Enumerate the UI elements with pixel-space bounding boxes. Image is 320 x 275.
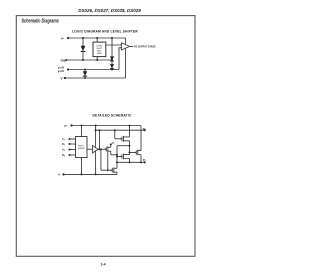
diode D4	[83, 71, 87, 76]
diode D2	[110, 56, 114, 60]
node V- label	[61, 76, 65, 80]
svg-text:φ1: φ1	[143, 158, 147, 162]
wire box bottom riser	[81, 158, 83, 175]
wire input rail	[68, 69, 119, 71]
top schematic caption	[72, 30, 138, 34]
svg-text:Schematic Diagrams: Schematic Diagrams	[22, 18, 60, 24]
transistor M4	[135, 126, 141, 163]
junction dot output/M4	[140, 161, 142, 163]
block U1 level shifter box	[93, 42, 106, 57]
junction dot gnd/box	[96, 59, 98, 61]
diode D3	[110, 64, 114, 68]
wire second rail y=132	[96, 129, 145, 131]
op-amp A1 output buffer triangle	[122, 43, 130, 50]
junction dot box-top/rail	[96, 37, 98, 39]
junction dot output/bus	[116, 161, 118, 163]
label Q1	[112, 143, 116, 145]
svg-text:A2: A2	[62, 149, 65, 153]
junction dot M5 gate riser top	[100, 148, 102, 150]
wire bottom rail	[64, 173, 118, 175]
page border frame	[16, 16, 195, 257]
junction dot M3 source on output line	[129, 161, 131, 163]
svg-text:B2: B2	[62, 154, 65, 158]
node V+ terminal dot	[67, 37, 69, 39]
op-amp A2 buffer triangle	[93, 145, 99, 153]
wire vertical x=95.6 behind buffer	[95, 126, 97, 175]
junction dot M2 drain on rail	[129, 125, 131, 127]
dot lower input	[120, 47, 122, 49]
transistor Q1	[104, 145, 111, 155]
wire box bottom connection	[96, 57, 98, 60]
node V+ label	[61, 37, 65, 41]
wire V- rail	[65, 77, 126, 79]
junction dot stub on M2-M3 chain	[129, 145, 131, 147]
wire box top connection	[96, 38, 98, 42]
junction dot bus 154.8	[116, 154, 118, 156]
node output label	[134, 46, 156, 49]
wire V+ rail	[68, 37, 126, 39]
svg-text:V+: V+	[64, 124, 68, 128]
svg-text:V+: V+	[61, 37, 65, 41]
junction dot x95.6 top rail	[95, 125, 97, 127]
svg-text:1-4: 1-4	[100, 263, 105, 267]
wire M5 gate riser	[100, 149, 102, 170]
diode D1	[81, 46, 86, 51]
block U2 text	[78, 145, 85, 150]
wire phi2 line riser x=99.5	[99, 130, 101, 149]
junction dot x99.5 on phi2 line	[99, 129, 101, 131]
wire bus x=117	[116, 146, 118, 167]
wire triangle lower input riser	[119, 48, 122, 70]
wire M4 gate line	[130, 152, 137, 154]
junction dot box riser	[81, 125, 83, 127]
input pin B	[62, 143, 65, 147]
junction dot M2 riser on phi2 line	[114, 129, 116, 131]
block U2 input box	[76, 137, 88, 158]
wire vertical V+ to GND at x=83	[82, 38, 84, 60]
terminal dot phi2 line	[144, 129, 146, 131]
terminal dot Q1 drain	[110, 143, 112, 145]
terminal dot output line	[144, 161, 146, 163]
node IN terminal dot	[67, 68, 69, 70]
bottom schematic caption	[93, 114, 132, 118]
wire Q1 source down to M5 gate line	[107, 152, 109, 170]
wire bus top stub	[117, 145, 130, 147]
junction dot buffer output	[99, 148, 101, 150]
transistor M3	[121, 154, 130, 163]
wire diode D4 branch	[84, 70, 86, 79]
svg-text:φ2: φ2	[143, 127, 147, 131]
wire top rail bottom schematic	[72, 125, 142, 127]
node GND label	[61, 58, 67, 62]
wire M2 gate riser	[114, 130, 116, 139]
node V- terminal dot	[64, 77, 66, 79]
transistor M5	[111, 167, 117, 175]
svg-text:V−: V−	[58, 173, 62, 177]
junction dot x83 top rail	[82, 37, 84, 39]
node V- terminal bottom rail	[62, 173, 64, 175]
wire M5 gate line	[101, 169, 112, 171]
wire GND rail	[65, 59, 67, 61]
wire right side vertical	[125, 38, 127, 78]
svg-text:LOGIC DIAGRAM AND LEVEL SHIFTE: LOGIC DIAGRAM AND LEVEL SHIFTER	[72, 30, 138, 34]
wire output line	[117, 161, 145, 163]
wire M2 gate line	[115, 138, 122, 140]
wire buffer output to Q1 gate	[98, 148, 105, 150]
node V+ terminal dot bottom	[70, 124, 72, 126]
junction dot Q1 source on gate line	[107, 169, 109, 171]
wire buffer input	[87, 148, 93, 150]
node phi2 terminal label	[143, 127, 147, 131]
junction dot M4 gate on chain	[129, 152, 131, 154]
junction dot x83 gnd rail	[82, 59, 84, 61]
block U1 text	[96, 45, 103, 55]
svg-text:TO OUTPUT STAGE: TO OUTPUT STAGE	[134, 46, 156, 49]
wire vertical diode chain x=112	[111, 38, 113, 70]
wire M3 gate line	[117, 156, 122, 158]
svg-text:BIAS: BIAS	[97, 52, 102, 55]
wire comparator output	[130, 45, 134, 47]
junction dot d4 bottom	[84, 77, 86, 79]
transistor M2	[121, 126, 130, 154]
node IN label	[58, 67, 64, 73]
input pin C	[62, 149, 65, 153]
junction dot M3 gate on bus	[116, 156, 118, 158]
svg-text:STAGE: STAGE	[78, 147, 85, 150]
wire Q1 source to bus	[111, 154, 117, 156]
junction dot d4 top	[84, 69, 86, 71]
svg-text:Q1: Q1	[112, 143, 116, 145]
input pin D	[62, 154, 65, 158]
svg-text:DETAILED SCHEMATIC: DETAILED SCHEMATIC	[93, 114, 132, 118]
svg-text:V−: V−	[61, 76, 65, 80]
junction dot box/bottom rail	[81, 173, 83, 175]
svg-text:B1: B1	[62, 143, 65, 147]
junction dot x112 top rail	[111, 37, 113, 39]
node V+ label bottom	[64, 124, 68, 128]
junction dot x112 gnd	[111, 59, 113, 61]
svg-text:φ2 IN: φ2 IN	[58, 70, 64, 73]
input pin A	[62, 138, 65, 142]
junction dot second rail	[95, 129, 97, 131]
svg-text:A1: A1	[62, 138, 65, 142]
junction dot x95.6 bottom rail	[95, 173, 97, 175]
svg-text:DS026, DS027, DS028, DS029: DS026, DS027, DS028, DS029	[78, 8, 141, 13]
node phi1 out label	[143, 158, 147, 162]
dot upper input	[120, 44, 122, 46]
wire box output to comparator upper input	[106, 44, 122, 46]
wire box top riser	[81, 126, 83, 137]
junction dot x112 input rail	[111, 69, 113, 71]
